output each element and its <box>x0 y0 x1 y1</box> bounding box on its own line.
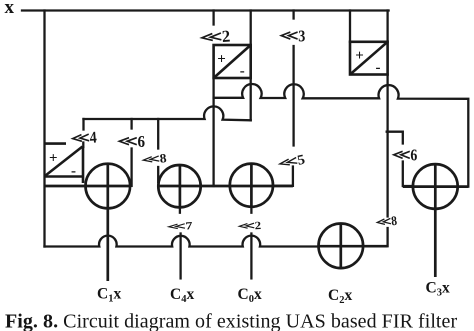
svg-text:8: 8 <box>159 150 168 165</box>
wire A horizontal with hops over three verticals, then down to adder A5 right port <box>214 84 469 187</box>
wire: block U1 output leg down to A2-A3 net <box>212 78 214 186</box>
wire: <<8 left leg lower segment to adder A2 left port <box>157 167 159 182</box>
adder A1 (output C1x) <box>45 164 131 281</box>
svg-text:6: 6 <box>137 133 145 151</box>
wire: long vertical from top rail along block U1 right edge down to wire B <box>250 11 252 121</box>
U2 bottom edge <box>45 175 83 178</box>
svg-text:Fig. 8. Circuit diagram of exi: Fig. 8. Circuit diagram of existing UAS … <box>5 311 457 331</box>
svg-text:C4x: C4x <box>170 286 194 305</box>
shift label <<8 (right) <box>377 213 398 230</box>
svg-text:-: - <box>240 64 245 80</box>
adder-subtractor block U1 (<<2 input) <box>214 45 251 78</box>
svg-text:-: - <box>71 164 76 180</box>
svg-text:5: 5 <box>296 152 306 169</box>
wire: top rail end drop to block U3 top-right <box>386 11 388 42</box>
wire: <<3 stub from top rail <box>292 11 294 19</box>
wire: <<5 L-leg into adder A3 right port <box>273 167 293 186</box>
shift label <<7 <box>168 220 192 233</box>
U2 right edge <box>82 146 85 183</box>
wire: adder A3 output stub upper <box>250 207 252 213</box>
shift label <<2 (bottom) <box>239 219 262 233</box>
wire: <<3/<<5 vertical <box>292 46 294 146</box>
svg-text:+: + <box>217 52 226 68</box>
wire: drop from top rail to block U3 top-left <box>349 11 351 42</box>
wire: block U3 output lower segment into adder A4 right port <box>363 228 388 246</box>
wire: block U3 output vertical upper (crossed by wire A) <box>386 75 388 217</box>
svg-text:+: + <box>49 151 58 167</box>
wire B horizontal (with hop over U1 output leg) <box>84 106 251 120</box>
wire: adder A2 output lower / C4x stub <box>179 234 181 279</box>
svg-text:x: x <box>4 0 14 18</box>
svg-text:2: 2 <box>254 219 261 232</box>
adder A2 (output C4x) <box>158 165 293 208</box>
wire: <<6 right L-leg lower into adder A5 left port <box>403 162 413 187</box>
wire: adder A2 output stub upper <box>179 208 181 213</box>
svg-text:C3x: C3x <box>426 280 450 299</box>
wire: adder A3 output lower / C0x stub <box>250 234 252 279</box>
shift label <<6 (right) <box>394 146 418 165</box>
bottom rail wire with hop bumps <box>45 236 319 247</box>
svg-text:2: 2 <box>221 26 231 46</box>
adder A3 (output C0x) <box>230 164 273 207</box>
adder A4 (output C2x) <box>319 224 388 269</box>
wire: <<6 left leg lower segment to adder A1 right port <box>130 149 132 186</box>
wire: <<4 leg upper segment <box>82 119 84 130</box>
svg-text:-: - <box>376 60 381 76</box>
svg-text:C2x: C2x <box>328 287 352 306</box>
wire: <<8 left leg upper segment <box>157 119 159 149</box>
shift label <<6 (left) <box>119 133 145 151</box>
shift label <<5 <box>279 152 307 172</box>
top rail wire (input x distribution) <box>22 9 389 11</box>
U2 partial top edge <box>45 142 67 145</box>
shift label <<8 (left) <box>143 150 168 167</box>
shift label <<2 (top) <box>201 26 231 47</box>
svg-text:8: 8 <box>390 213 397 228</box>
wire: <<6 right L-leg upper <box>387 132 403 144</box>
svg-text:C1x: C1x <box>97 286 121 305</box>
svg-text:6: 6 <box>410 146 417 165</box>
shift label <<3 <box>281 27 305 45</box>
svg-text:C0x: C0x <box>238 286 262 305</box>
svg-text:3: 3 <box>298 27 305 45</box>
adder A5 (output C3x) <box>403 164 469 277</box>
U2 diagonal <box>46 147 83 176</box>
svg-text:+: + <box>355 48 364 64</box>
adder-subtractor block U3 (right) <box>350 42 388 75</box>
wire: <<6 left leg upper segment <box>130 119 132 129</box>
wire: <<4 leg lower segment into block U2 <box>82 143 84 148</box>
svg-text:4: 4 <box>89 128 98 147</box>
left rail wire <box>43 11 45 247</box>
adder-subtractor block U2 (left, <<4 input) <box>45 144 84 183</box>
svg-text:7: 7 <box>185 220 193 233</box>
wire: stub from top rail to shifter label <<2 <box>212 11 214 25</box>
shift label <<4 <box>72 128 98 148</box>
